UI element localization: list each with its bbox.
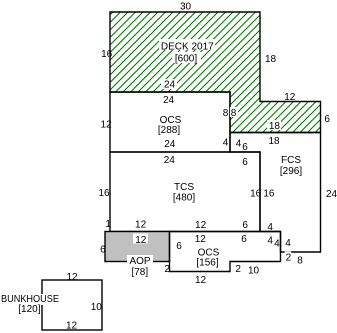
room FCS [296]: [230, 133, 321, 253]
svg-text:8: 8: [231, 108, 237, 119]
svg-text:12: 12: [284, 92, 296, 103]
svg-text:12: 12: [101, 119, 113, 130]
svg-text:12: 12: [135, 235, 147, 246]
svg-text:24: 24: [164, 139, 176, 150]
svg-text:18: 18: [268, 136, 280, 147]
deck DECK 2017 outline: [110, 12, 321, 133]
dim 12 AOP top: [133, 234, 148, 244]
dim 18 deck strip bottom inside: [267, 120, 281, 130]
svg-text:24: 24: [326, 189, 337, 200]
svg-text:4: 4: [236, 139, 242, 150]
svg-text:16: 16: [101, 49, 113, 60]
dim 8 deck strip left: [230, 107, 238, 117]
svg-text:4: 4: [274, 239, 280, 250]
svg-text:2: 2: [235, 264, 241, 275]
room TCS [480]: [110, 152, 260, 232]
svg-text:[78]: [78]: [131, 267, 148, 278]
svg-text:TCS: TCS: [174, 182, 194, 193]
room BUNKHOUSE [120]: [42, 280, 102, 330]
svg-text:8: 8: [297, 255, 303, 266]
svg-text:FCS: FCS: [281, 155, 301, 166]
svg-text:6: 6: [241, 234, 247, 245]
svg-text:18: 18: [269, 121, 281, 132]
svg-text:AOP: AOP: [129, 256, 150, 267]
dim 2 OCS156 right lower: [285, 251, 292, 261]
svg-text:6: 6: [242, 142, 248, 153]
svg-text:12: 12: [195, 220, 207, 231]
svg-text:12: 12: [66, 272, 78, 283]
deck label: [159, 39, 215, 50]
svg-text:[288]: [288]: [158, 125, 180, 136]
svg-text:1: 1: [105, 219, 111, 230]
svg-text:4: 4: [267, 235, 273, 246]
svg-text:2: 2: [164, 264, 170, 275]
svg-text:30: 30: [180, 2, 192, 13]
svg-text:6: 6: [176, 241, 182, 252]
svg-text:24: 24: [164, 80, 176, 91]
dim 24 deck bottom: [161, 79, 177, 89]
svg-text:16: 16: [98, 188, 110, 199]
svg-text:10: 10: [248, 265, 260, 276]
deck DECK 2017 hatch lines: [0, 0, 337, 145]
AOP label: [127, 255, 153, 266]
svg-text:2: 2: [286, 253, 292, 264]
svg-text:[120]: [120]: [18, 304, 40, 315]
svg-text:DECK 2017: DECK 2017: [161, 41, 214, 52]
room OCS [156]: [170, 232, 281, 272]
svg-text:12: 12: [135, 219, 147, 230]
svg-text:12: 12: [66, 320, 78, 331]
svg-text:8: 8: [223, 108, 229, 119]
svg-text:16: 16: [263, 188, 275, 199]
svg-text:4: 4: [285, 238, 291, 249]
svg-text:6: 6: [100, 245, 106, 256]
svg-text:6: 6: [242, 220, 248, 231]
svg-text:[296]: [296]: [280, 166, 302, 177]
svg-text:6: 6: [324, 114, 330, 125]
room AOP [78] gray: [105, 232, 170, 262]
svg-text:4: 4: [267, 222, 273, 233]
svg-text:[480]: [480]: [173, 192, 195, 203]
svg-text:24: 24: [163, 95, 175, 106]
svg-text:12: 12: [195, 275, 207, 286]
room OCS [288]: [110, 92, 230, 152]
svg-text:24: 24: [164, 155, 176, 166]
svg-text:12: 12: [195, 234, 207, 245]
svg-text:[600]: [600]: [175, 54, 197, 65]
svg-text:[156]: [156]: [196, 258, 218, 269]
svg-text:18: 18: [265, 54, 277, 65]
BUNKHOUSE label: [2, 294, 59, 305]
svg-text:10: 10: [91, 302, 103, 313]
svg-text:16: 16: [250, 188, 262, 199]
svg-text:4: 4: [223, 138, 229, 149]
svg-text:6: 6: [242, 157, 248, 168]
